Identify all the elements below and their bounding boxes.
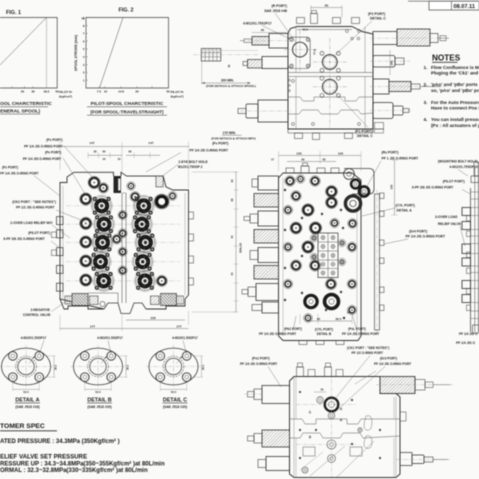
svg-text:PF 1/4 JIS O-RING PORT: PF 1/4 JIS O-RING PORT (374, 362, 411, 366)
svg-text:PF 1/4 JIS O: PF 1/4 JIS O (459, 332, 478, 336)
svg-text:4-M10X1.5XDP17: 4-M10X1.5XDP17 (97, 336, 123, 340)
svg-text:ATED PRESSURE : 34.3MPa (350Kg: ATED PRESSURE : 34.3MPa (350Kgf/cm² ) (0, 438, 120, 445)
svg-text:50: 50 (166, 90, 170, 94)
svg-text:130: 130 (296, 151, 301, 155)
svg-text:PF 1/4 JIS O-RING PORT: PF 1/4 JIS O-RING PORT (240, 362, 277, 366)
svg-text:PF 1/4 JIS O-RING PORT: PF 1/4 JIS O-RING PORT (259, 332, 296, 336)
svg-text:52.4: 52.4 (23, 390, 29, 394)
svg-text:(Px PORT): (Px PORT) (212, 142, 228, 146)
svg-text:177: 177 (176, 324, 181, 328)
svg-text:(Px PORT): (Px PORT) (46, 138, 62, 142)
svg-text:FIG. 1: FIG. 1 (6, 10, 21, 16)
svg-text:42.9: 42.9 (302, 28, 308, 32)
svg-text:159: 159 (150, 316, 155, 320)
svg-text:60: 60 (102, 150, 106, 154)
svg-text:52.4: 52.4 (95, 390, 101, 394)
svg-text:(Px PORT): (Px PORT) (45, 150, 61, 154)
svg-text:14.8: 14.8 (118, 90, 124, 94)
svg-text:2-NEGATIVE: 2-NEGATIVE (30, 308, 50, 312)
svg-text:9-PF 3/8 JIS O-RING PORT: 9-PF 3/8 JIS O-RING PORT (3, 237, 44, 241)
svg-text:2-OVER LOAD RELIEF W/V: 2-OVER LOAD RELIEF W/V (10, 221, 53, 225)
svg-text:PF 1 JIS O-RING PORT: PF 1 JIS O-RING PORT (382, 157, 420, 161)
svg-text:(R PORT): (R PORT) (271, 4, 287, 8)
svg-text:(P2 PORT): (P2 PORT) (368, 12, 385, 16)
svg-text:9-PF 3/8 JIS O-RING PORT: 9-PF 3/8 JIS O-RING PORT (412, 185, 453, 189)
svg-text:(SAE J518 #20): (SAE J518 #20) (87, 405, 111, 409)
svg-text:3-OVER LOAD: 3-OVER LOAD (435, 215, 458, 219)
svg-text:358±.25: 358±.25 (239, 243, 243, 254)
svg-text:4-M10X1.5XDP17: 4-M10X1.5XDP17 (21, 336, 47, 340)
svg-text:2.: 2. (424, 82, 428, 87)
svg-text:DETAIL C: DETAIL C (370, 17, 386, 21)
svg-text:77.8: 77.8 (313, 49, 317, 55)
svg-text:3.: 3. (424, 100, 428, 105)
svg-text:PILOT-SPOOL CHARCTERISTIC: PILOT-SPOOL CHARCTERISTIC (91, 101, 164, 107)
svg-text:26.2: 26.2 (53, 364, 57, 370)
svg-text:(Pn1 PORT): (Pn1 PORT) (252, 357, 270, 361)
svg-text:(CYL PORT): (CYL PORT) (396, 204, 415, 208)
svg-text:52.4: 52.4 (171, 390, 177, 394)
svg-text:10: 10 (81, 17, 85, 21)
svg-text:(CK2 PORT : "SEE NOTES"): (CK2 PORT : "SEE NOTES") (12, 200, 56, 204)
svg-text:PF 1/4 JIS O-RING PORT: PF 1/4 JIS O-RING PORT (190, 149, 228, 153)
svg-text:(Px : All actuators of pilot l: (Px : All actuators of pilot line p (431, 123, 479, 128)
svg-text:PF 1/4 JIS O-RING PORT: PF 1/4 JIS O-RING PORT (24, 144, 62, 148)
svg-text:(CYL PORT): (CYL PORT) (315, 328, 333, 332)
svg-text:DETAIL B: DETAIL B (317, 332, 332, 336)
svg-text:65: 65 (322, 157, 326, 161)
svg-text:SAE J518 #48: SAE J518 #48 (264, 9, 287, 13)
svg-text:(Rs PORT): (Rs PORT) (382, 150, 399, 154)
svg-text:Flow Confluence is Made by Plu: Flow Confluence is Made by Plu (431, 65, 479, 70)
svg-text:(kgf/cm²): (kgf/cm²) (59, 94, 72, 98)
svg-text:20: 20 (135, 90, 139, 94)
svg-text:(CK1 PORT : "SEE NOTES"): (CK1 PORT : "SEE NOTES") (347, 346, 389, 350)
svg-text:16: 16 (118, 157, 121, 161)
svg-text:(SAE J518 #16): (SAE J518 #16) (15, 405, 39, 409)
svg-text:PF 1/4 JIS O-RING PORT: PF 1/4 JIS O-RING PORT (23, 157, 61, 161)
svg-text:300 MIN.: 300 MIN. (221, 79, 234, 83)
svg-text:16: 16 (103, 157, 106, 161)
svg-text:26.2: 26.2 (125, 364, 129, 370)
svg-text:130: 130 (338, 151, 343, 155)
svg-text:65: 65 (301, 157, 305, 161)
svg-text:PF 1/4 JIS O-RING PORT: PF 1/4 JIS O-RING PORT (342, 332, 379, 336)
svg-text:(P1 PORT): (P1 PORT) (355, 129, 372, 133)
svg-text:RESSURE UP : 34.3~34.8MPa(350: RESSURE UP : 34.3~34.8MPa(350~355Kgf/cm²… (0, 460, 165, 467)
svg-text:M12X1.75XDP 2: M12X1.75XDP 2 (178, 165, 203, 169)
svg-text:Pluging the 'Ck1' and 'Ck2' po: Pluging the 'Ck1' and 'Ck2' ports (431, 71, 479, 76)
svg-text:(Dr4 PORT): (Dr4 PORT) (409, 230, 427, 234)
svg-text:RELIEF VALVE: RELIEF VALVE (438, 222, 462, 226)
svg-text:SPOOL STROKE (mm): SPOOL STROKE (mm) (74, 35, 78, 71)
svg-text:2-EYE BOLT HOLE: 2-EYE BOLT HOLE (178, 160, 208, 164)
svg-text:PF 1/4 JIS O: PF 1/4 JIS O (456, 341, 475, 345)
svg-text:(PILOT PORT): (PILOT PORT) (443, 180, 465, 184)
svg-text:4-M10X1.5XDP17: 4-M10X1.5XDP17 (172, 336, 198, 340)
svg-text:DETAIL C: DETAIL C (357, 134, 373, 138)
svg-text:20: 20 (21, 90, 25, 94)
svg-text:(FOR DETACH & ATTACH SPOOL): (FOR DETACH & ATTACH SPOOL) (206, 84, 256, 88)
svg-text:39.2: 39.2 (44, 90, 50, 94)
svg-text:PF 1/4 JIS O-RING PORT: PF 1/4 JIS O-RING PORT (406, 235, 446, 239)
svg-text:(kgf/cm²): (kgf/cm²) (171, 94, 184, 98)
svg-text:Have to connect Pns Port with: Have to connect Pns Port with t (431, 106, 479, 111)
svg-text:150: 150 (389, 184, 393, 189)
svg-text:90: 90 (261, 28, 265, 32)
svg-text:FIG. 2: FIG. 2 (119, 7, 134, 13)
svg-text:4-M12X1.75X2P17: 4-M12X1.75X2P17 (243, 21, 272, 25)
svg-text:(Dr3 PORT): (Dr3 PORT) (380, 357, 397, 361)
svg-text:1.: 1. (424, 65, 428, 70)
svg-text:7.5: 7.5 (97, 90, 102, 94)
svg-text:TOMER SPEC: TOMER SPEC (0, 423, 45, 430)
svg-text:(39): (39) (389, 61, 393, 66)
svg-text:PF 1/4 JIS O-RING PORT: PF 1/4 JIS O-RING PORT (0, 171, 38, 175)
svg-text:4.: 4. (424, 117, 428, 122)
svg-text:60: 60 (317, 317, 321, 321)
svg-text:ELIEF VALVE SET PRESSURE: ELIEF VALVE SET PRESSURE (0, 454, 87, 461)
svg-text:(MOUNTING BOLT HOLE): (MOUNTING BOLT HOLE) (438, 159, 478, 163)
svg-text:30: 30 (31, 90, 35, 94)
svg-text:ENERAL SPOOL): ENERAL SPOOL) (0, 108, 40, 114)
svg-text:177: 177 (90, 324, 95, 328)
svg-text:so, 'pAo' and 'pBo' ports are: so, 'pAo' and 'pBo' ports are op (431, 88, 479, 93)
svg-text:DETAIL A: DETAIL A (397, 209, 413, 213)
svg-text:147: 147 (89, 141, 94, 145)
svg-text:OOL CHARCTERISTIC: OOL CHARCTERISTIC (0, 101, 52, 107)
svg-text:(PILOT PORT): (PILOT PORT) (28, 231, 50, 235)
svg-text:60: 60 (128, 150, 132, 154)
svg-text:101: 101 (347, 311, 352, 315)
svg-text:You can install pressure senso: You can install pressure sensor (431, 117, 479, 122)
svg-text:ORMAL : 32.3~32.8MP: ORMAL : 32.3~32.8MPa(330~335Kgf/cm² )at … (0, 467, 148, 474)
svg-text:26.2: 26.2 (201, 364, 205, 370)
svg-text:10: 10 (104, 90, 108, 94)
svg-text:NOTES: NOTES (432, 54, 461, 63)
svg-text:PF 1/2 O-RING PORT: PF 1/2 O-RING PORT (352, 351, 384, 355)
svg-text:'pAo' and 'pBo' ports are clos: 'pAo' and 'pBo' ports are closed (431, 82, 479, 87)
svg-text:170 MIN.: 170 MIN. (223, 131, 236, 135)
svg-text:80.5: 80.5 (336, 317, 342, 321)
svg-text:17: 17 (271, 157, 275, 161)
svg-text:(SAE J518 #20): (SAE J518 #20) (163, 405, 187, 409)
svg-text:PF 1/2 JIS O-RING PORT: PF 1/2 JIS O-RING PORT (16, 205, 54, 209)
svg-text:4-M12X1.75XDP20: 4-M12X1.75XDP20 (449, 165, 478, 169)
svg-text:CONTROL VALVE: CONTROL VALVE (23, 313, 51, 317)
svg-text:30: 30 (93, 150, 97, 154)
svg-text:For the Auto Pressure Up Syste: For the Auto Pressure Up Syste (431, 100, 479, 105)
svg-text:(FOR SPOOL:TRAVELSTRAIGHT): (FOR SPOOL:TRAVELSTRAIGHT) (90, 109, 164, 114)
svg-text:(FOR DETACH & ATTACH MPV): (FOR DETACH & ATTACH MPV) (211, 136, 255, 140)
svg-text:08.07.11: 08.07.11 (454, 4, 475, 10)
svg-text:147: 147 (148, 141, 153, 145)
svg-text:83: 83 (325, 3, 329, 7)
svg-text:(Pz PORT): (Pz PORT) (2, 165, 18, 169)
